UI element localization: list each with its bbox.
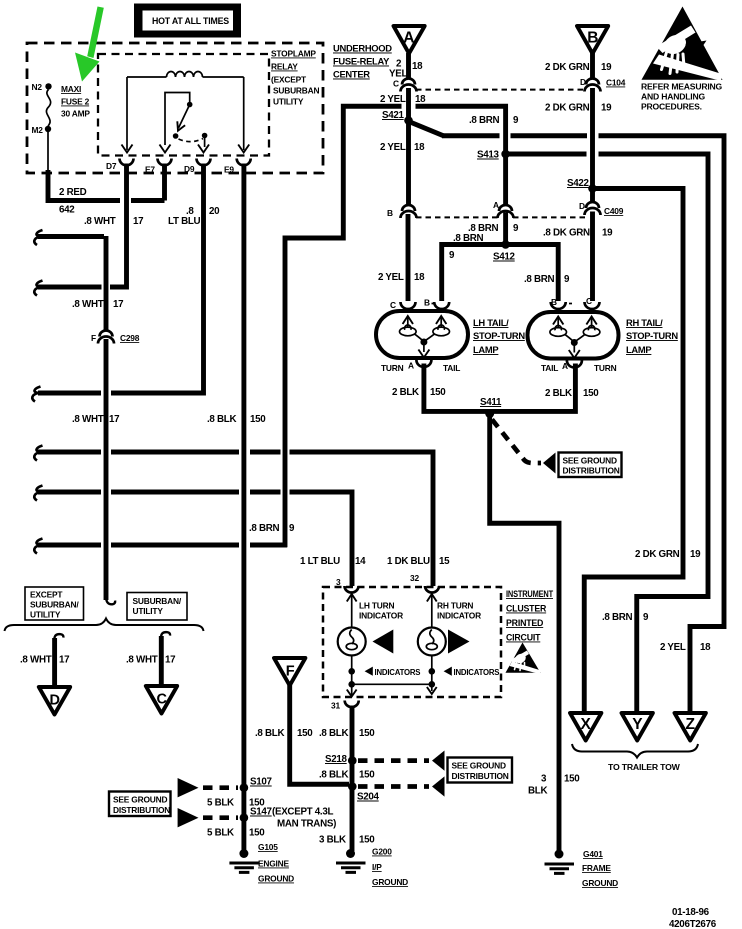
svg-text:C298: C298 [120, 333, 140, 343]
svg-text:SUBURBAN/: SUBURBAN/ [30, 600, 79, 610]
small ESD logo [506, 643, 542, 675]
svg-text:17: 17 [133, 216, 144, 227]
svg-text:150: 150 [430, 387, 446, 398]
svg-text:.8 WHT: .8 WHT [126, 655, 158, 666]
relay pin arrows [122, 145, 133, 153]
svg-text:TO TRAILER TOW: TO TRAILER TOW [608, 762, 681, 772]
fuse MAXI FUSE 2 30 AMP [32, 82, 91, 172]
box HOT AT ALL TIMES [134, 4, 241, 38]
dashed wire S411 to see ground distribution [492, 420, 541, 464]
svg-text:S413: S413 [477, 150, 500, 161]
RH big arrow [448, 630, 470, 654]
svg-text:20: 20 [209, 206, 220, 217]
svg-text:.8 BRN: .8 BRN [469, 115, 500, 126]
box SEE GROUND DISTRIBUTION (mid) [559, 453, 622, 478]
svg-text:DISTRIBUTION: DISTRIBUTION [563, 466, 620, 476]
wire D9 .8 LT BLU 20 [38, 164, 204, 394]
LH lamp terminal A [416, 360, 431, 367]
connector X triangle [570, 713, 601, 741]
svg-text:SEE GROUND: SEE GROUND [452, 761, 506, 771]
wire 2 RED 642 from fuse [48, 170, 120, 201]
stub wire 4 to 1 DK BLU [38, 452, 433, 586]
svg-text:.8 WHT: .8 WHT [20, 655, 52, 666]
svg-text:FUSE 2: FUSE 2 [61, 97, 90, 107]
cluster bottom wiring [352, 684, 432, 695]
stoplamp relay inner dashed box [98, 54, 269, 156]
RH lamp terminal A [567, 361, 582, 368]
svg-text:F: F [286, 664, 295, 680]
label STOPLAMP RELAY (EXCEPT SUBURBAN UTILITY [271, 49, 319, 107]
svg-text:CLUSTER: CLUSTER [506, 604, 547, 614]
wire B 2 DK GRN 19 to S422 [590, 88, 595, 202]
svg-text:32: 32 [410, 573, 419, 583]
wire .8 BRN from stub up through S413 [38, 106, 506, 547]
svg-text:BLK: BLK [528, 786, 547, 797]
svg-text:Y: Y [632, 716, 643, 733]
svg-text:D: D [50, 693, 60, 709]
svg-text:HOT AT ALL TIMES: HOT AT ALL TIMES [152, 16, 229, 26]
svg-text:.8 BLK: .8 BLK [319, 770, 348, 781]
svg-text:MAN TRANS): MAN TRANS) [277, 819, 336, 830]
svg-text:17: 17 [109, 414, 120, 425]
stub wire 1 [38, 234, 104, 239]
wire to D .8 WHT 17 [52, 638, 57, 686]
connector A triangle [394, 26, 425, 54]
terminal 32 [425, 586, 439, 593]
svg-text:G105: G105 [258, 842, 278, 852]
svg-text:.8 DK GRN: .8 DK GRN [543, 228, 590, 239]
node S422 [588, 184, 597, 193]
svg-text:31: 31 [331, 701, 340, 711]
wire A 2 YEL 18 upper [406, 53, 411, 78]
svg-text:M2: M2 [32, 125, 44, 135]
svg-text:17: 17 [165, 655, 176, 666]
svg-text:G200: G200 [372, 847, 392, 857]
svg-text:9: 9 [289, 523, 295, 534]
svg-text:150: 150 [249, 828, 265, 839]
svg-text:FUSE-RELAY: FUSE-RELAY [333, 56, 390, 67]
ground G105 [229, 842, 294, 884]
svg-text:LAMP: LAMP [626, 344, 651, 355]
connector D C409 on B wire [579, 201, 624, 216]
terminal D7 [120, 159, 134, 166]
wire S422 2 DK GRN to X [584, 189, 683, 712]
svg-text:150: 150 [297, 728, 313, 739]
wire 31 .8 BLK 150 [350, 706, 355, 852]
svg-text:GROUND: GROUND [258, 874, 294, 884]
box SEE GROUND DISTRIBUTION (right) [448, 758, 513, 783]
svg-text:D: D [580, 77, 586, 87]
svg-text:STOP-TURN: STOP-TURN [473, 330, 525, 341]
svg-text:9: 9 [513, 223, 519, 234]
svg-text:STOPLAMP: STOPLAMP [271, 49, 316, 59]
svg-text:PRINTED: PRINTED [506, 618, 543, 628]
svg-text:2 DK GRN: 2 DK GRN [635, 549, 680, 560]
node S413 [501, 150, 510, 159]
connector C triangle [146, 686, 177, 714]
svg-text:RELAY: RELAY [271, 62, 298, 72]
svg-text:18: 18 [412, 61, 423, 72]
LH lamp internals [400, 316, 450, 358]
label LH TAIL/STOP-TURN LAMP [473, 317, 525, 355]
svg-text:INDICATOR: INDICATOR [437, 611, 481, 621]
svg-text:19: 19 [601, 103, 612, 114]
svg-text:2 DK GRN: 2 DK GRN [545, 62, 590, 73]
terminal 3 [345, 586, 359, 593]
svg-text:30 AMP: 30 AMP [61, 109, 90, 119]
RH lamp terminal C [585, 302, 600, 309]
label UNDERHOOD FUSE-RELAY CENTER [333, 43, 392, 80]
svg-text:19: 19 [601, 62, 612, 73]
svg-text:3: 3 [541, 774, 547, 785]
svg-text:S422: S422 [567, 178, 590, 189]
connector Z triangle [675, 713, 706, 741]
arrowhead [543, 453, 556, 474]
svg-text:SUBURBAN/: SUBURBAN/ [133, 596, 182, 606]
svg-text:B: B [551, 297, 557, 307]
svg-text:.8 WHT: .8 WHT [72, 299, 104, 310]
svg-text:9: 9 [449, 250, 455, 261]
connector B on A wire [387, 205, 417, 218]
svg-text:9: 9 [643, 612, 649, 623]
indicators RH [444, 667, 452, 676]
svg-text:S412: S412 [493, 252, 516, 263]
wire S413 to Y [509, 154, 708, 711]
connector A on BRN wire [493, 200, 514, 218]
svg-text:C: C [586, 296, 592, 306]
wire S412 right .8 BRN 9 to RH lamp B [506, 245, 559, 302]
svg-text:S204: S204 [357, 792, 380, 803]
wire E7 jog [131, 164, 165, 201]
hook end of .8 WHT wire [106, 597, 115, 604]
connector D triangle [39, 687, 70, 715]
svg-text:EXCEPT: EXCEPT [30, 590, 63, 600]
RH lamp internals [550, 317, 600, 359]
wire to S412 [503, 213, 508, 245]
svg-text:2 RED: 2 RED [59, 187, 87, 198]
svg-text:.8 BRN: .8 BRN [453, 233, 484, 244]
terminal 31 [345, 701, 359, 708]
brace to trailer tow [572, 744, 698, 758]
svg-text:2 BLK: 2 BLK [392, 387, 419, 398]
svg-text:RH TAIL/: RH TAIL/ [626, 317, 663, 328]
svg-text:FRAME: FRAME [582, 863, 611, 873]
svg-text:INDICATOR: INDICATOR [359, 611, 403, 621]
svg-text:LAMP: LAMP [473, 344, 498, 355]
svg-text:A: A [493, 200, 499, 210]
svg-text:.8 BRN: .8 BRN [524, 274, 555, 285]
label INSTRUMENT CLUSTER PRINTED CIRCUIT [506, 589, 554, 643]
svg-text:S218: S218 [325, 754, 348, 765]
svg-text:G401: G401 [583, 849, 603, 859]
svg-text:5 BLK: 5 BLK [207, 798, 234, 809]
dashed wire S204 [358, 784, 429, 789]
hook stub D9 [32, 387, 40, 402]
svg-text:B: B [387, 208, 393, 218]
indicators LH [365, 667, 373, 676]
svg-text:UTILITY: UTILITY [273, 97, 304, 107]
svg-text:18: 18 [414, 142, 425, 153]
ground G401 [545, 849, 619, 888]
svg-text:DISTRIBUTION: DISTRIBUTION [452, 771, 509, 781]
connector C298 [91, 331, 140, 344]
svg-text:B: B [587, 30, 598, 47]
svg-text:TAIL: TAIL [541, 363, 558, 373]
connector F triangle [274, 658, 305, 686]
svg-text:B: B [424, 298, 430, 308]
svg-text:E7: E7 [145, 165, 155, 175]
dashed wire S107 [178, 778, 199, 797]
svg-text:01-18-96: 01-18-96 [672, 907, 710, 918]
relay U: coil [127, 72, 244, 151]
svg-text:14: 14 [355, 556, 366, 567]
svg-text:2 YEL: 2 YEL [380, 142, 406, 153]
svg-text:15: 15 [439, 556, 450, 567]
LH tail/stop-turn lamp body [376, 311, 468, 358]
box EXCEPT SUBURBAN/UTILITY [25, 587, 84, 620]
svg-text:(EXCEPT 4.3L: (EXCEPT 4.3L [272, 807, 334, 818]
svg-text:3 BLK: 3 BLK [319, 835, 346, 846]
brace split [5, 619, 204, 632]
wire B .8 DK GRN 19 to RH lamp C [590, 212, 595, 302]
box SEE GROUND DISTRIBUTION (left) [109, 792, 171, 817]
connector Y triangle [622, 713, 653, 741]
svg-text:D9: D9 [184, 164, 195, 174]
svg-text:C: C [393, 79, 399, 89]
terminal D9 [197, 159, 211, 166]
relay switch [165, 93, 207, 148]
svg-text:A: A [403, 30, 414, 47]
wire E9 .8 BLK 150 main vertical [241, 164, 246, 852]
svg-text:18: 18 [414, 272, 425, 283]
svg-text:150: 150 [583, 388, 599, 399]
svg-text:19: 19 [602, 228, 613, 239]
svg-text:2 BLK: 2 BLK [545, 388, 572, 399]
svg-text:LH TAIL/: LH TAIL/ [473, 317, 509, 328]
stub wire 2 [38, 285, 102, 290]
connector C on A wire [393, 79, 417, 92]
svg-text:S411: S411 [480, 397, 502, 408]
wire F .8 BLK 150 to S204 [290, 685, 349, 784]
svg-text:UTILITY: UTILITY [133, 606, 164, 616]
svg-text:SEE GROUND: SEE GROUND [113, 795, 167, 805]
svg-text:4206T2676: 4206T2676 [669, 919, 717, 929]
wire B 2 DK GRN 19 upper [590, 53, 595, 78]
RH turn indicator [418, 594, 481, 688]
svg-text:UTILITY: UTILITY [30, 610, 61, 620]
svg-text:(EXCEPT: (EXCEPT [271, 75, 307, 85]
node S421 [404, 116, 413, 125]
svg-text:RH TURN: RH TURN [437, 601, 473, 611]
svg-text:3: 3 [336, 577, 341, 587]
wire A 2 YEL 18 to S421 [406, 88, 411, 205]
underhood fuse-relay center dashed box [27, 43, 323, 173]
svg-text:17: 17 [59, 655, 70, 666]
svg-text:LT BLU: LT BLU [168, 216, 201, 227]
svg-text:18: 18 [700, 642, 711, 653]
wire D7 .8 WHT 17 [110, 164, 127, 288]
svg-text:.8 WHT: .8 WHT [84, 216, 116, 227]
svg-text:642: 642 [59, 205, 75, 216]
svg-text:2 DK GRN: 2 DK GRN [545, 103, 590, 114]
svg-text:A: A [408, 361, 414, 371]
svg-text:150: 150 [359, 770, 375, 781]
svg-text:.8 BRN: .8 BRN [249, 523, 280, 534]
svg-text:INDICATORS: INDICATORS [454, 668, 500, 677]
dashed wire S147 [178, 808, 199, 827]
svg-text:TURN: TURN [381, 363, 404, 373]
svg-text:C: C [157, 692, 168, 708]
svg-text:C104: C104 [606, 78, 626, 88]
svg-text:X: X [581, 716, 592, 733]
svg-text:S421: S421 [382, 110, 405, 121]
wire LH lamp A 2 BLK 150 + RH to S411 [424, 364, 576, 412]
svg-text:TAIL: TAIL [443, 363, 460, 373]
LH lamp terminal B [434, 302, 449, 309]
svg-text:2 YEL: 2 YEL [378, 272, 404, 283]
svg-text:SEE GROUND: SEE GROUND [563, 456, 617, 466]
green arrow [75, 7, 104, 82]
svg-text:GROUND: GROUND [372, 877, 408, 887]
svg-text:5 BLK: 5 BLK [207, 828, 234, 839]
svg-text:S107: S107 [250, 777, 273, 788]
svg-text:9: 9 [564, 274, 570, 285]
svg-text:150: 150 [359, 728, 375, 739]
svg-text:CIRCUIT: CIRCUIT [506, 633, 541, 643]
svg-text:AND HANDLING: AND HANDLING [641, 92, 705, 102]
svg-text:D7: D7 [106, 161, 117, 171]
dashed wire S218 [358, 758, 429, 763]
wire to C .8 WHT 17 [159, 636, 164, 684]
node S412 [501, 240, 510, 249]
svg-text:C409: C409 [604, 206, 624, 216]
svg-text:.8 BLK: .8 BLK [207, 414, 236, 425]
svg-text:S147: S147 [250, 807, 273, 818]
svg-text:DISTRIBUTION: DISTRIBUTION [113, 805, 170, 815]
svg-text:1 LT BLU: 1 LT BLU [300, 556, 340, 567]
svg-text:GROUND: GROUND [582, 878, 618, 888]
node S147 [240, 813, 249, 822]
svg-text:.8 WHT: .8 WHT [72, 414, 104, 425]
node S204 [348, 782, 357, 791]
wire S411 3 BLK 150 to G401 [490, 415, 559, 851]
svg-text:ENGINE: ENGINE [258, 859, 290, 869]
terminal E7 [158, 159, 172, 166]
svg-text:9: 9 [513, 115, 519, 126]
big ESD logo refer measuring [642, 7, 724, 81]
label RH TAIL/STOP-TURN LAMP [626, 317, 678, 355]
LH big arrow [373, 630, 394, 654]
svg-text:F: F [91, 333, 96, 343]
dashed connector line B-A-D [416, 216, 585, 218]
svg-text:.8 BLK: .8 BLK [319, 728, 348, 739]
svg-text:150: 150 [250, 414, 266, 425]
ground G200 [336, 847, 408, 888]
node S411 [485, 409, 494, 418]
terminal E9 [237, 159, 251, 166]
instrument cluster dashed box [323, 587, 501, 697]
svg-text:INSTRUMENT: INSTRUMENT [506, 589, 554, 599]
svg-text:I/P: I/P [372, 862, 382, 872]
node C298 vertical .8 WHT [104, 236, 109, 600]
svg-text:.8 BRN: .8 BRN [602, 612, 633, 623]
svg-text:SUBURBAN: SUBURBAN [273, 86, 319, 96]
svg-text:CENTER: CENTER [333, 69, 370, 80]
svg-text:TURN: TURN [594, 363, 617, 373]
svg-text:19: 19 [690, 549, 701, 560]
RH tail/stop-turn lamp body [528, 312, 619, 359]
svg-text:150: 150 [359, 835, 375, 846]
node S107 [240, 783, 249, 792]
svg-text:.8 BLK: .8 BLK [255, 728, 284, 739]
connector B triangle [577, 26, 608, 54]
LH lamp terminal C [401, 302, 416, 309]
svg-text:C: C [390, 300, 396, 310]
LH turn indicator [338, 594, 403, 688]
svg-text:2 YEL: 2 YEL [380, 94, 406, 105]
svg-text:17: 17 [113, 299, 124, 310]
svg-text:REFER MEASURING: REFER MEASURING [641, 82, 723, 92]
svg-text:LH TURN: LH TURN [359, 601, 395, 611]
svg-text:N2: N2 [32, 82, 43, 92]
RH lamp terminal B [551, 302, 566, 309]
svg-text:1 DK BLU: 1 DK BLU [387, 556, 430, 567]
svg-text:E9: E9 [224, 165, 234, 175]
dashed connector line C-D [416, 89, 585, 91]
svg-text:Z: Z [686, 716, 696, 733]
svg-text:A: A [562, 361, 568, 371]
svg-text:18: 18 [415, 94, 426, 105]
svg-text:150: 150 [564, 774, 580, 785]
wire S412 left .8 BRN 9 to LH lamp B [442, 245, 506, 302]
svg-text:D: D [579, 201, 585, 211]
svg-text:2 YEL: 2 YEL [660, 642, 686, 653]
box SUBURBAN/UTILITY [127, 593, 187, 621]
node S218 [348, 756, 357, 765]
stub wire 5 to 1 LT BLU [38, 492, 352, 586]
connector D C104 on B wire [580, 77, 626, 92]
svg-text:UNDERHOOD: UNDERHOOD [333, 43, 392, 54]
wire S421 .8 BRN 9 diagonal [410, 122, 444, 136]
svg-text:INDICATORS: INDICATORS [375, 668, 421, 677]
wire A 2 YEL 18 to LH lamp C [406, 214, 411, 301]
svg-text:MAXI: MAXI [61, 84, 81, 94]
svg-text:STOP-TURN: STOP-TURN [626, 330, 678, 341]
svg-text:PROCEDURES.: PROCEDURES. [641, 102, 702, 112]
